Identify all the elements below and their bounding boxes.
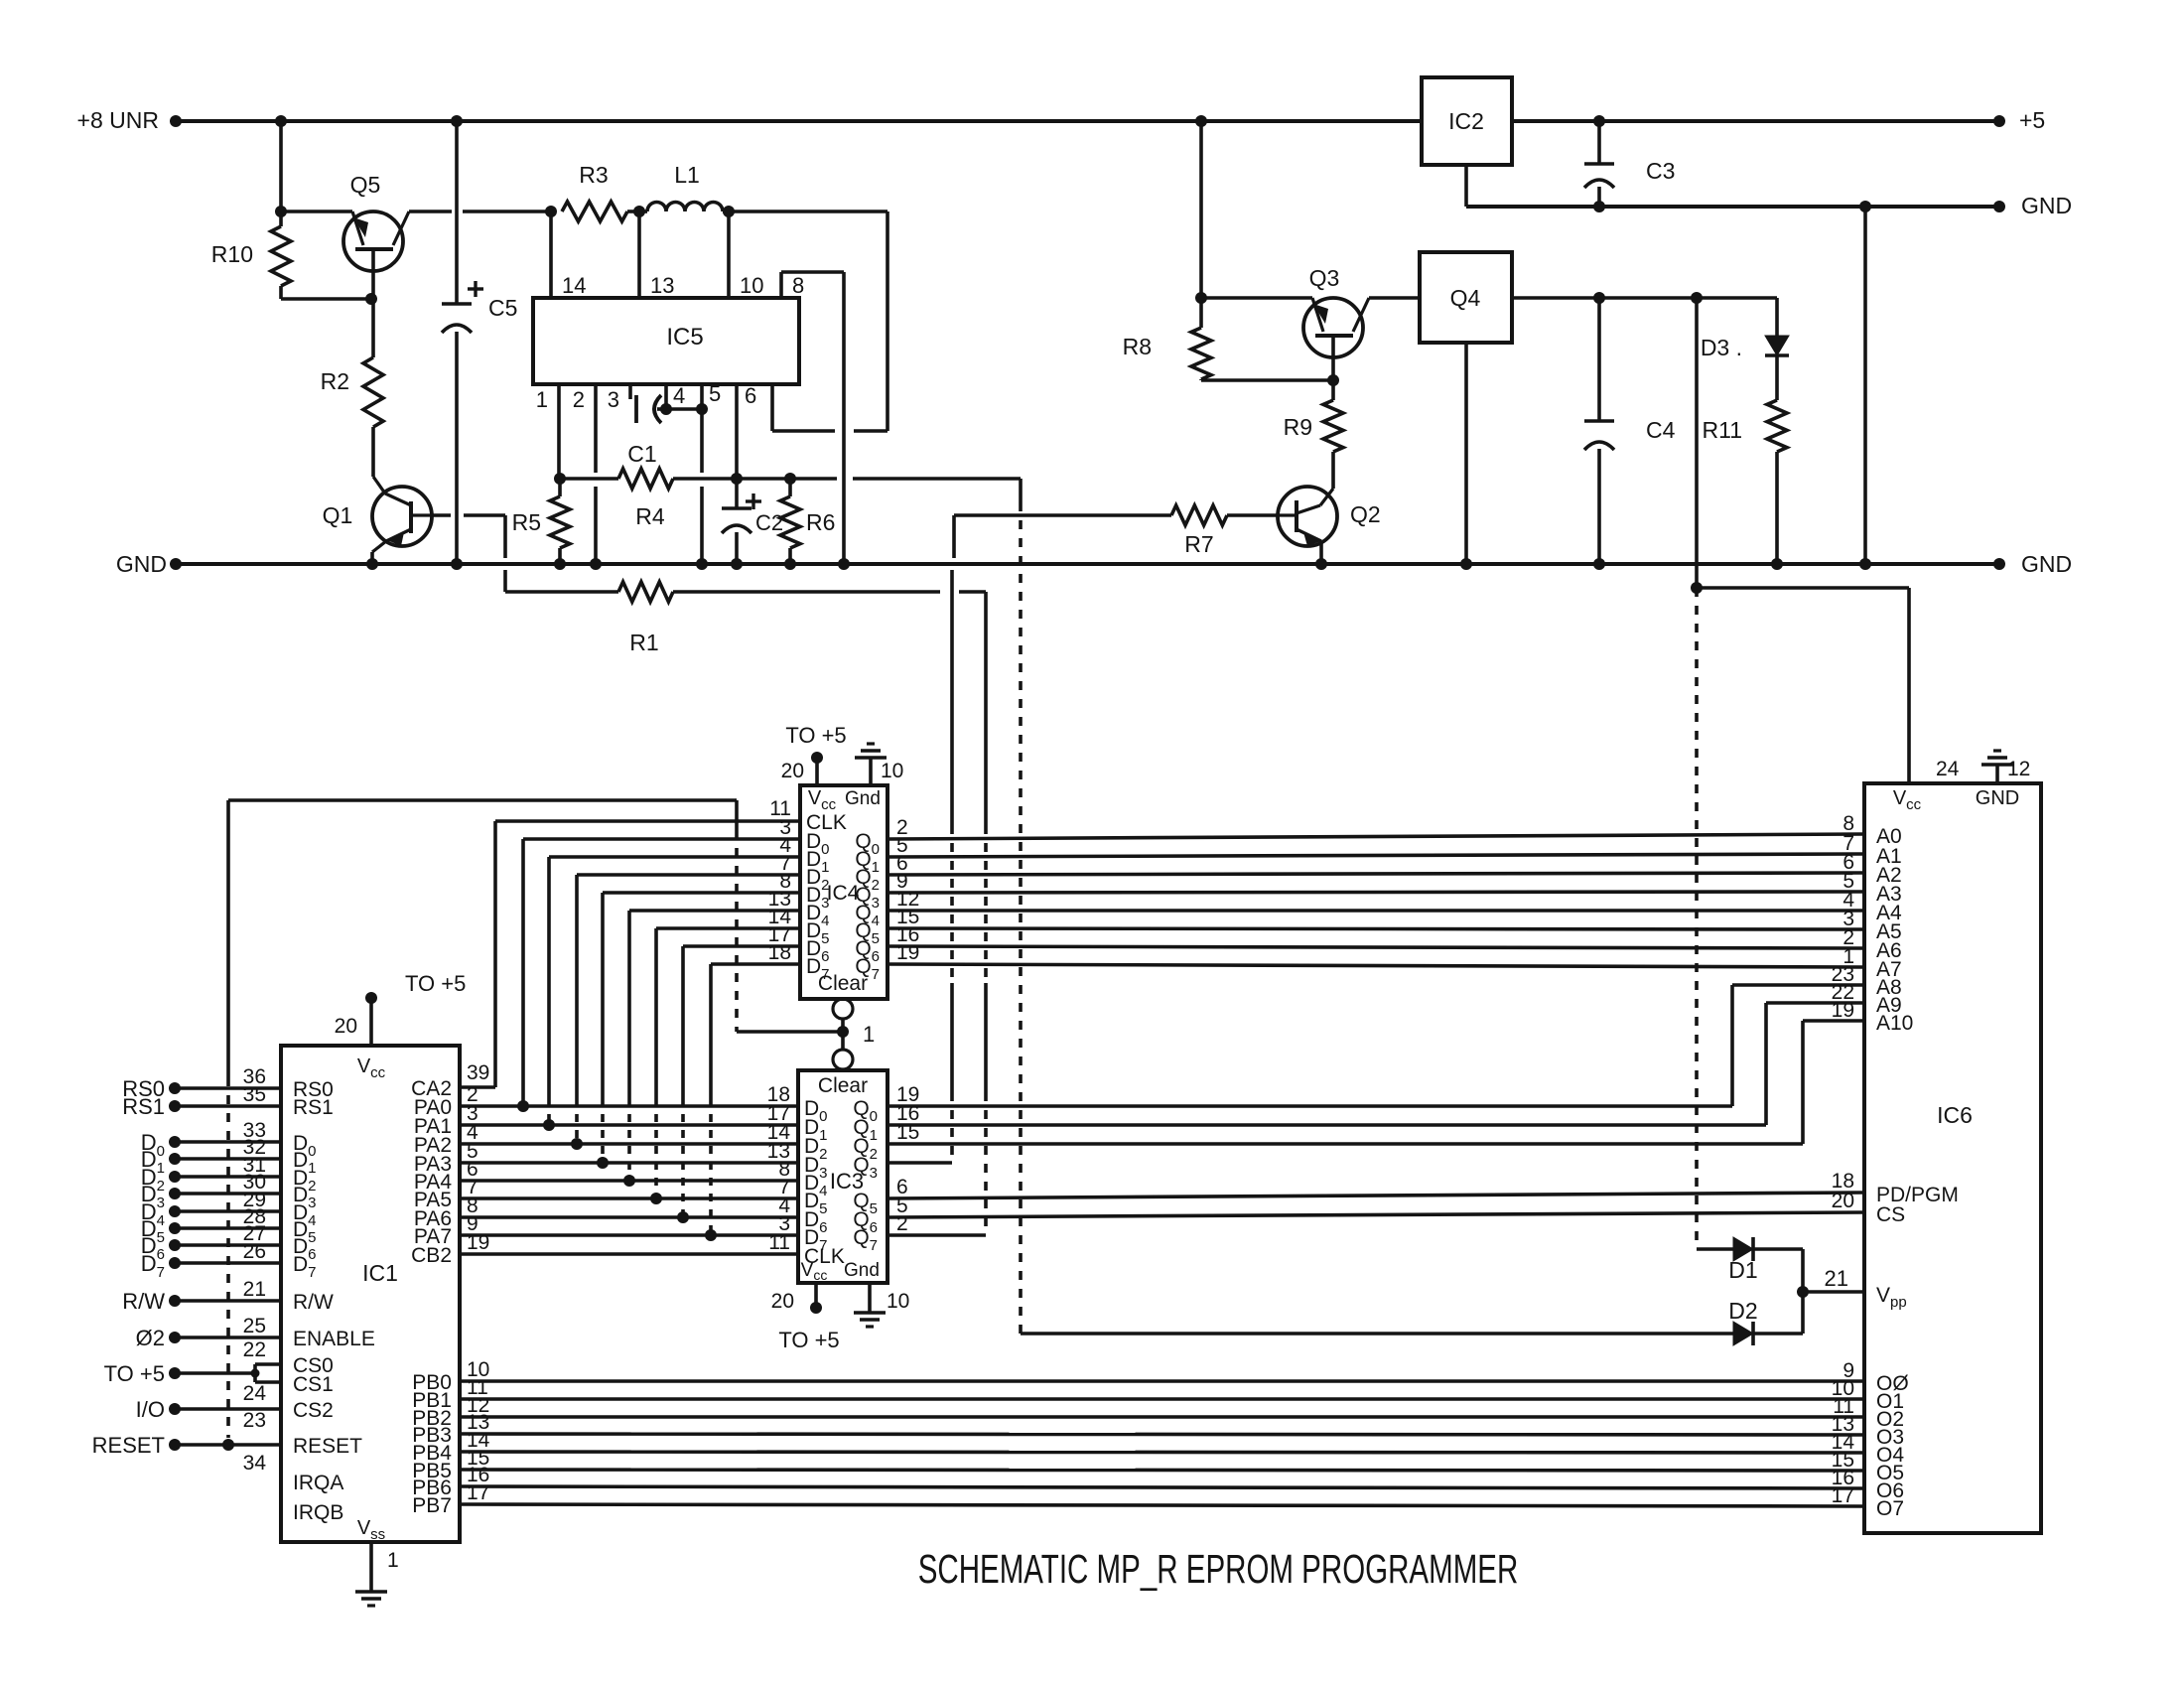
svg-text:IRQA: IRQA bbox=[293, 1472, 343, 1494]
junction +8/R10 riser bbox=[275, 115, 287, 127]
node IC1 TO+5 bbox=[365, 992, 377, 1004]
wire IC4 Vcc stub bbox=[815, 758, 819, 785]
wire input RESET bbox=[169, 1439, 181, 1451]
junction Q5 base/R2 bbox=[365, 293, 377, 305]
wire RESET riser solid bbox=[226, 800, 230, 1077]
wire PA3 row bbox=[460, 1161, 798, 1165]
clear bubble IC3 bbox=[833, 1050, 853, 1069]
wire pin5 to GND bbox=[700, 487, 704, 564]
junction pin5/GND bbox=[696, 558, 708, 570]
wire CA2 to IC4 CLK bbox=[495, 819, 800, 823]
wire input D3 bbox=[169, 1188, 181, 1199]
svg-text:CB2: CB2 bbox=[411, 1244, 452, 1267]
capacitor C2 bbox=[722, 506, 751, 510]
wire IC4 D5 input bbox=[656, 926, 800, 930]
wire clear riser top bbox=[735, 800, 739, 830]
svg-text:CS1: CS1 bbox=[293, 1373, 334, 1396]
wire Q4 out down bbox=[1695, 298, 1699, 588]
svg-text:1: 1 bbox=[387, 1549, 399, 1572]
IC IC3 latch bbox=[798, 1070, 887, 1283]
wire R5 bottom bbox=[558, 548, 562, 564]
wire IC4 D3 input bbox=[603, 891, 800, 895]
wire C4 bottom bbox=[1597, 449, 1601, 564]
svg-text:13: 13 bbox=[650, 273, 674, 298]
wire IC2 ground stub bbox=[1464, 165, 1468, 207]
wire PA7 row bbox=[460, 1233, 798, 1237]
wire R10 top lead bbox=[279, 211, 283, 226]
wire R1 right bbox=[673, 590, 940, 594]
wire C3 bottom bbox=[1597, 187, 1601, 207]
node +5 terminal bbox=[1993, 115, 2005, 127]
junction +8/C5 riser bbox=[451, 115, 463, 127]
wire IC1 Vss stub bbox=[369, 1542, 373, 1592]
ground IC1 bbox=[355, 1590, 387, 1594]
wire D1 down to Vpp bbox=[1801, 1249, 1805, 1292]
wire Q2 emitter to GND bbox=[1319, 541, 1323, 564]
wire PA4 to IC4 D4 bbox=[627, 911, 631, 1098]
regulator IC2 bbox=[1422, 77, 1512, 165]
wire IC5 pin10 stub bbox=[727, 211, 731, 298]
wire Vpp stub bbox=[1803, 1290, 1864, 1294]
wire R10 bottom lead bbox=[279, 286, 283, 299]
wire R1 to IC3 Q7 riser bbox=[984, 592, 988, 825]
junction PA7 bbox=[705, 1229, 717, 1241]
svg-text:R10: R10 bbox=[211, 241, 253, 267]
svg-text:C3: C3 bbox=[1646, 158, 1675, 184]
transistor Q2 bbox=[1278, 487, 1337, 546]
wire R4 right a bbox=[673, 477, 737, 481]
wire IC4 Q7 to IC6 A7 bbox=[887, 964, 1864, 967]
wire D1 to corner bbox=[1753, 1247, 1803, 1251]
svg-text:R9: R9 bbox=[1284, 414, 1312, 440]
wire PA7 to IC4 D7 bbox=[709, 964, 713, 1098]
svg-text:RS1: RS1 bbox=[293, 1096, 334, 1119]
resistor R7 bbox=[1171, 505, 1227, 525]
wire D2 to corner bbox=[1753, 1332, 1803, 1336]
svg-text:GND: GND bbox=[2021, 551, 2072, 577]
svg-text:20: 20 bbox=[1832, 1190, 1854, 1212]
svg-text:Ø2: Ø2 bbox=[136, 1326, 165, 1350]
svg-text:O7: O7 bbox=[1876, 1497, 1904, 1520]
wire IC5 pin3 stub bbox=[628, 384, 632, 399]
svg-text:+8 UNR: +8 UNR bbox=[77, 107, 159, 133]
junction PA0 bbox=[517, 1100, 529, 1112]
wire RESET to clear bbox=[228, 798, 737, 802]
wire R3-L1 bbox=[627, 210, 639, 213]
wire IC5 pin2 to GND bbox=[594, 487, 598, 564]
ground IC6 bbox=[1981, 763, 2013, 767]
resistor R11 bbox=[1767, 400, 1787, 452]
capacitor C5 bbox=[442, 302, 472, 306]
resistor R1 bbox=[618, 582, 673, 602]
wire D2 feed dashed riser bbox=[1019, 502, 1023, 1334]
svg-text:R/W: R/W bbox=[293, 1291, 334, 1314]
wire D1 feed dashed bbox=[1695, 588, 1699, 1249]
svg-text:25: 25 bbox=[243, 1315, 266, 1337]
wire input RS1 bbox=[169, 1100, 181, 1112]
wire C4 top bbox=[1597, 298, 1601, 421]
svg-text:10: 10 bbox=[887, 1290, 909, 1313]
capacitor C1 bbox=[634, 395, 638, 423]
svg-text:D1: D1 bbox=[1728, 1257, 1757, 1283]
svg-text:8: 8 bbox=[792, 273, 804, 298]
svg-text:RS1: RS1 bbox=[122, 1094, 165, 1119]
svg-text:C2: C2 bbox=[755, 510, 783, 535]
svg-text:TO +5: TO +5 bbox=[405, 971, 466, 996]
svg-text:R2: R2 bbox=[321, 368, 349, 394]
wire C5 top bbox=[455, 121, 459, 304]
svg-text:IRQB: IRQB bbox=[293, 1501, 343, 1524]
svg-text:C5: C5 bbox=[488, 295, 517, 321]
wire R4 riser top bbox=[1019, 479, 1023, 502]
diode D2 bbox=[1733, 1322, 1753, 1345]
wire L1 to right bbox=[729, 210, 887, 213]
wire R1 left bbox=[505, 590, 618, 594]
wire R1 to riser bbox=[959, 590, 986, 594]
wire CA2 out bbox=[460, 1085, 495, 1089]
junction C3/GND bbox=[1593, 201, 1605, 212]
junction IC5 pin13 bbox=[633, 206, 645, 217]
svg-text:A10: A10 bbox=[1876, 1012, 1913, 1035]
wire Q2 base lead bbox=[1279, 513, 1297, 516]
wire R4 right b bbox=[737, 477, 790, 481]
wire pin5 down upper bbox=[700, 409, 704, 473]
svg-text:Clear: Clear bbox=[818, 1074, 868, 1097]
junction Q3 emitter branch bbox=[1195, 292, 1207, 304]
wire input D0 bbox=[169, 1136, 181, 1148]
svg-text:R11: R11 bbox=[1703, 417, 1743, 443]
IC IC1 PIA bbox=[281, 1046, 460, 1542]
resistor R9 bbox=[1323, 400, 1343, 452]
svg-text:24: 24 bbox=[243, 1382, 267, 1405]
node IC3 TO+5 bbox=[810, 1302, 822, 1314]
wire Q5 collector to R3 bbox=[463, 210, 551, 213]
wire IC3 Q2 to IC6 A10 bbox=[887, 1142, 1803, 1146]
node GND right terminal bbox=[1993, 558, 2005, 570]
wire R11 bottom bbox=[1775, 452, 1779, 564]
wire Vcc feed down to IC6 bbox=[1907, 588, 1911, 783]
wire IC5 pin6 stub bbox=[735, 384, 739, 479]
wire to IC5 pin7 a bbox=[854, 429, 887, 433]
svg-text:34: 34 bbox=[243, 1452, 267, 1475]
junction C4 top bbox=[1593, 292, 1605, 304]
wire PA6 row bbox=[460, 1215, 798, 1219]
wire R5 top bbox=[558, 479, 562, 496]
junction Vcc feed/D1 feed bbox=[1691, 582, 1703, 594]
wire clear riser dashed bbox=[735, 830, 739, 1032]
svg-text:1: 1 bbox=[536, 387, 548, 412]
wire D2 feed row bbox=[1021, 1332, 1733, 1336]
wire IC4 Gnd stub bbox=[869, 758, 873, 785]
svg-text:TO +5: TO +5 bbox=[778, 1328, 839, 1352]
wire IC5 pin8 riser to GND bbox=[842, 272, 846, 564]
wire IC5 pin7 stub bbox=[770, 386, 774, 431]
node +8 UNR terminal bbox=[170, 115, 182, 127]
junction PA4 bbox=[623, 1175, 635, 1187]
wire R7 to IC3 Q3 riser bbox=[950, 570, 954, 825]
wire IC4 Q0 to IC6 A0 bbox=[887, 834, 1864, 839]
diode D3 bbox=[1765, 336, 1789, 355]
wire IC6 GND stub bbox=[1995, 765, 1999, 783]
wire IC4 Q4 to IC6 A4 bbox=[887, 909, 1864, 913]
svg-text:TO +5: TO +5 bbox=[104, 1361, 165, 1386]
wire Q3 base down bbox=[1331, 336, 1335, 380]
resistor R5 bbox=[550, 496, 570, 548]
wire PA2 row bbox=[460, 1142, 798, 1146]
wire R10 bottom to Q5 base bbox=[281, 297, 371, 301]
svg-text:1: 1 bbox=[863, 1022, 875, 1047]
wire IC4 D7 input bbox=[711, 962, 800, 966]
junction Q1 emitter/GND bbox=[366, 558, 378, 570]
IC IC5 bbox=[533, 298, 799, 384]
wire R9 top bbox=[1331, 380, 1335, 400]
wire input I/O bbox=[169, 1403, 181, 1415]
svg-text:C1: C1 bbox=[627, 441, 656, 467]
svg-text:SCHEMATIC MP_R EPROM PROGRAM: SCHEMATIC MP_R EPROM PROGRAMMER bbox=[918, 1546, 1519, 1592]
wire IC3 Q5 to IC6 PD/PGM bbox=[887, 1193, 1864, 1198]
junction +8/R8 riser bbox=[1195, 115, 1207, 127]
wire IC4 D4 input bbox=[629, 909, 800, 913]
capacitor C3 bbox=[1584, 162, 1614, 166]
svg-text:Clear: Clear bbox=[818, 972, 868, 995]
svg-text:39: 39 bbox=[467, 1061, 489, 1084]
svg-text:C4: C4 bbox=[1646, 417, 1676, 443]
svg-text:10: 10 bbox=[881, 760, 903, 782]
wire Q5 collector lead bbox=[409, 210, 452, 213]
wire IC3 Q6 to IC6 CS bbox=[887, 1212, 1864, 1217]
svg-text:12: 12 bbox=[2007, 758, 2030, 780]
svg-text:RESET: RESET bbox=[92, 1433, 165, 1458]
svg-text:TO +5: TO +5 bbox=[785, 723, 846, 748]
wire PA1 row bbox=[460, 1123, 798, 1127]
svg-text:18: 18 bbox=[768, 941, 791, 964]
svg-text:Q4: Q4 bbox=[1450, 285, 1481, 311]
svg-text:L1: L1 bbox=[674, 162, 700, 188]
wire Q4 ground stub bbox=[1464, 343, 1468, 564]
wire input ENABLE bbox=[169, 1332, 181, 1343]
wire PA6 to IC4 D6 bbox=[681, 946, 685, 1098]
wire IC3 Q1 to IC6 A9 bbox=[887, 1123, 1766, 1127]
wire R8 to Q3 base bbox=[1201, 378, 1333, 382]
svg-text:D3 .: D3 . bbox=[1701, 335, 1742, 360]
junction R11/GND bbox=[1771, 558, 1783, 570]
svg-text:R7: R7 bbox=[1184, 531, 1213, 557]
wire R2 top lead bbox=[371, 299, 375, 357]
wire Vcc feed horizontal bbox=[1697, 586, 1909, 590]
wire GND rails link bbox=[1863, 207, 1867, 564]
wire input R/W bbox=[169, 1295, 181, 1307]
wire input D2 bbox=[169, 1171, 181, 1183]
svg-text:24: 24 bbox=[1936, 758, 1960, 780]
wire IC5 pin13 stub bbox=[637, 211, 641, 298]
wire C2 bottom bbox=[735, 532, 739, 564]
wire IC5 pin8 to riser bbox=[781, 270, 844, 274]
wire IC4 D1 input bbox=[549, 855, 800, 859]
resistor R2 bbox=[363, 357, 383, 427]
wire Q1 base lead bbox=[411, 513, 431, 516]
wire IC5 pin1 stub bbox=[557, 384, 561, 479]
wire PB2 to IC6 O2 bbox=[460, 1415, 1864, 1419]
junction C4/GND bbox=[1593, 558, 1605, 570]
wire PA5 to IC4 D5 bbox=[654, 928, 658, 1098]
wire R6 top bbox=[788, 479, 792, 496]
svg-text:4: 4 bbox=[673, 383, 685, 408]
junction R4/R5/pin1 bbox=[554, 473, 566, 485]
svg-text:6: 6 bbox=[745, 383, 756, 408]
wire crossing GND to R1 bbox=[503, 570, 507, 592]
wire PA1 to IC4 D1 bbox=[547, 857, 551, 1098]
resistor R6 bbox=[780, 496, 800, 548]
svg-text:IC6: IC6 bbox=[1937, 1102, 1973, 1128]
junction GND rails link top bbox=[1859, 201, 1871, 212]
node IC4 TO+5 bbox=[811, 752, 823, 764]
junction R6/GND bbox=[784, 558, 796, 570]
diode D1 bbox=[1733, 1237, 1753, 1261]
svg-text:RESET: RESET bbox=[293, 1435, 362, 1458]
ground IC3 bbox=[854, 1311, 886, 1315]
wire IC4 Q5 to IC6 A5 bbox=[887, 928, 1864, 929]
wire PB1 to IC6 O1 bbox=[460, 1397, 1864, 1401]
wire Q1 base to R1 bbox=[464, 513, 505, 517]
svg-text:23: 23 bbox=[243, 1409, 266, 1432]
wire CB2 to IC3 CLK bbox=[460, 1252, 798, 1256]
svg-text:19: 19 bbox=[467, 1231, 489, 1254]
svg-text:Q5: Q5 bbox=[350, 172, 381, 198]
svg-text:17: 17 bbox=[1832, 1484, 1854, 1507]
svg-text:IC1: IC1 bbox=[362, 1260, 398, 1286]
svg-text:17: 17 bbox=[467, 1481, 489, 1504]
wire Q5 emitter lead bbox=[281, 210, 352, 213]
svg-text:10: 10 bbox=[740, 273, 763, 298]
svg-text:IC2: IC2 bbox=[1448, 108, 1484, 134]
wire PA0 to IC4 D0 bbox=[521, 839, 525, 1106]
wire R4 right c bbox=[790, 477, 837, 481]
wire IC3 Q0 to IC6 A8 bbox=[887, 1104, 1732, 1108]
wire PB7 to IC6 O7 bbox=[460, 1504, 1864, 1506]
wire R8 bottom bbox=[1199, 379, 1203, 380]
wire down right of IC5 bbox=[886, 211, 889, 431]
wire IC4 Q3 to IC6 A3 bbox=[887, 892, 1864, 893]
junction Q3 base/R9 bbox=[1327, 374, 1339, 386]
svg-text:19: 19 bbox=[896, 941, 919, 964]
capacitor C4 bbox=[1584, 419, 1614, 423]
wire PB3 to IC6 O3 bbox=[460, 1434, 1864, 1435]
svg-text:+5: +5 bbox=[2019, 107, 2045, 133]
svg-text:2: 2 bbox=[573, 387, 585, 412]
svg-text:20: 20 bbox=[335, 1015, 357, 1038]
svg-text:R4: R4 bbox=[635, 503, 665, 529]
transistor Q5 bbox=[343, 211, 403, 271]
wire input D6 bbox=[169, 1239, 181, 1251]
wire R7 left bbox=[954, 513, 1171, 517]
wire R8 riser bbox=[1199, 121, 1203, 328]
wire GND rail upper right bbox=[1466, 205, 1999, 209]
transistor Q3 bbox=[1303, 298, 1363, 357]
wire IC4 Q6 to IC6 A6 bbox=[887, 946, 1864, 948]
wire C5 bottom bbox=[455, 332, 459, 564]
junction C1/pin4 bbox=[660, 403, 672, 415]
wire clear to riser bbox=[737, 1030, 843, 1034]
svg-text:IC5: IC5 bbox=[666, 324, 703, 351]
clear bubble IC4 bbox=[833, 999, 853, 1019]
wire IC3 Q7 stub bbox=[887, 1233, 986, 1237]
wire IC5 pin4 stub bbox=[664, 384, 668, 409]
junction Q4/GND bbox=[1460, 558, 1472, 570]
wire R7 riser upper bbox=[952, 515, 956, 558]
junction RESET bbox=[222, 1439, 234, 1451]
svg-text:Gnd: Gnd bbox=[845, 788, 881, 809]
wire IC3 Q3 stub bbox=[887, 1161, 952, 1165]
junction C5/GND bbox=[451, 558, 463, 570]
wire PA0 row bbox=[460, 1104, 798, 1108]
wire D3 top bbox=[1775, 298, 1779, 336]
wire C1 right bbox=[657, 407, 666, 411]
junction pin6/C2 bbox=[731, 473, 743, 485]
wire PB5 to IC6 O5 bbox=[460, 1470, 1864, 1471]
svg-text:R6: R6 bbox=[806, 509, 835, 535]
wire IC5 pin8 stub bbox=[779, 272, 783, 298]
svg-text:R3: R3 bbox=[579, 162, 608, 188]
wire IC4 Q2 to IC6 A2 bbox=[887, 873, 1864, 875]
svg-text:20: 20 bbox=[771, 1290, 794, 1313]
transistor Q1 bbox=[372, 487, 432, 546]
svg-text:21: 21 bbox=[1825, 1266, 1848, 1291]
wire IC4 D0 input bbox=[523, 837, 800, 841]
svg-text:CS2: CS2 bbox=[293, 1399, 334, 1422]
junction C2/GND bbox=[731, 558, 743, 570]
wire clear link bbox=[841, 1019, 845, 1050]
wire GND rail bbox=[176, 562, 1999, 566]
junction R3 left / IC5 pin14 bbox=[545, 206, 557, 217]
wire Q3 emitter lead bbox=[1201, 296, 1312, 300]
wire input D7 bbox=[169, 1257, 181, 1269]
svg-text:Q1: Q1 bbox=[323, 502, 353, 528]
resistor R3 bbox=[562, 202, 627, 221]
wire PB4 to IC6 O4 bbox=[460, 1452, 1864, 1453]
svg-text:R8: R8 bbox=[1123, 334, 1152, 359]
wire Q4 output bbox=[1512, 296, 1777, 300]
svg-text:D2: D2 bbox=[1728, 1298, 1757, 1324]
junction +5/C3 bbox=[1593, 115, 1605, 127]
junction PA1 bbox=[543, 1119, 555, 1131]
wire to IC5 pin7 b bbox=[772, 429, 835, 433]
junction Vpp bbox=[1797, 1286, 1809, 1298]
svg-text:3: 3 bbox=[608, 387, 619, 412]
svg-text:R5: R5 bbox=[512, 509, 541, 535]
wire R6 bottom bbox=[788, 548, 792, 564]
wire Q1 emitter to GND bbox=[370, 552, 374, 564]
junction PA3 bbox=[597, 1157, 609, 1169]
ground IC4 bbox=[855, 756, 887, 760]
junction IC5 pin10 bbox=[723, 206, 735, 217]
junction R6 bbox=[784, 473, 796, 485]
wire +8 UNR rail bbox=[176, 119, 1422, 123]
IC IC4 latch bbox=[800, 785, 887, 999]
wire C2 top bbox=[735, 479, 739, 508]
svg-text:26: 26 bbox=[243, 1240, 266, 1263]
wire +8 to Q5 emitter node bbox=[279, 121, 283, 211]
wire R4 to riser bbox=[853, 477, 1021, 481]
wire CA2 riser bbox=[493, 821, 497, 1087]
svg-text:Gnd: Gnd bbox=[844, 1260, 880, 1281]
node GND left terminal bbox=[170, 558, 182, 570]
svg-text:21: 21 bbox=[243, 1278, 266, 1301]
wire Q5 base down bbox=[371, 249, 375, 299]
svg-text:19: 19 bbox=[1832, 999, 1854, 1022]
wire R4 left bbox=[559, 477, 618, 481]
wire RESET riser dashed bbox=[226, 1077, 230, 1438]
svg-text:PB7: PB7 bbox=[412, 1494, 452, 1517]
